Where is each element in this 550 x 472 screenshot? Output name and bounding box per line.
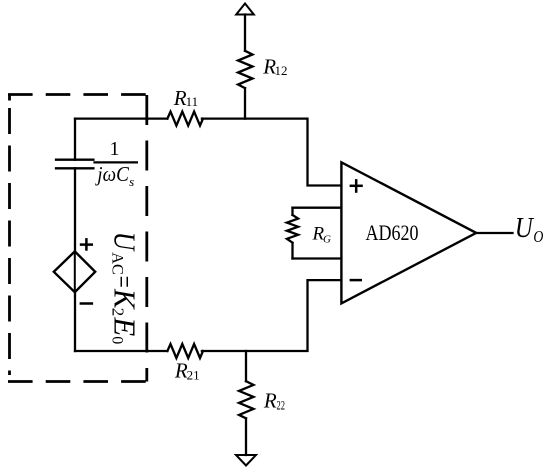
wire: [291, 243, 293, 259]
plus sign source: [80, 243, 93, 246]
svg-text:0: 0: [109, 336, 126, 344]
resistor R12: [238, 51, 253, 88]
wire bottom node left: [75, 350, 167, 352]
resistor R22: [239, 381, 254, 418]
svg-text:R: R: [263, 388, 277, 412]
svg-text:G: G: [323, 234, 331, 246]
svg-text:jωC: jωC: [95, 162, 130, 186]
wire bottom node right: [202, 280, 342, 351]
dashed box left edge: [8, 108, 11, 375]
wire R22 bottom: [245, 418, 247, 455]
minus sign source: [80, 302, 94, 305]
capacitor Cs plate 1: [56, 159, 93, 161]
wire RG stub top: [293, 207, 342, 209]
wire R22 top: [245, 351, 247, 381]
svg-text:O: O: [533, 227, 543, 246]
wire output: [476, 232, 512, 234]
plus sign op-amp input: [350, 185, 363, 188]
wire: [74, 168, 76, 251]
svg-text:21: 21: [187, 367, 200, 382]
minus sign op-amp input: [350, 279, 362, 282]
svg-text:12: 12: [275, 63, 288, 78]
power arrow bottom: [236, 455, 256, 466]
svg-text:AD620: AD620: [366, 220, 419, 245]
svg-text:AC: AC: [109, 252, 126, 275]
svg-text:11: 11: [186, 94, 199, 109]
svg-text:E: E: [107, 316, 142, 336]
source U_AC diamond: [54, 251, 95, 292]
label U_AC = K2 E0 (rotated): [107, 232, 142, 345]
wire: [244, 15, 246, 51]
svg-text:s: s: [129, 174, 134, 189]
dashed box bottom edge: [8, 380, 147, 383]
wire RG stub bottom: [293, 257, 342, 259]
wire: [291, 208, 293, 215]
dashed box top-left corner stub: [8, 95, 11, 101]
svg-text:U: U: [107, 232, 142, 253]
wire left branch upper: [74, 119, 76, 160]
fraction bar: [93, 161, 138, 163]
capacitor Cs plate 2: [56, 167, 93, 169]
svg-text:U: U: [515, 212, 535, 244]
op-amp U1 AD620: [341, 162, 476, 303]
dashed box top edge: [8, 93, 147, 96]
resistor RG: [287, 215, 298, 243]
wire: [74, 292, 76, 351]
dashed box right edge: [145, 95, 148, 382]
resistor R21: [167, 344, 203, 358]
svg-text:2: 2: [109, 308, 128, 317]
resistor R11: [167, 112, 203, 126]
svg-text:22: 22: [277, 397, 286, 412]
wire: [244, 88, 246, 119]
wire top node right: [202, 119, 342, 186]
svg-text:1: 1: [110, 138, 120, 160]
svg-text:=: =: [107, 276, 140, 288]
wire top node left: [75, 117, 167, 119]
power arrow top: [236, 4, 254, 15]
